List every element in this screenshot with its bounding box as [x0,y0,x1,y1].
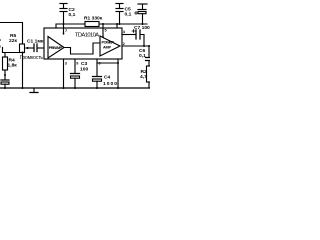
pin 9 [76,62,78,66]
ground rail [0,87,150,89]
pin 1 wire top [116,23,118,28]
svg-text:5: 5 [105,29,107,33]
pin 3 [65,62,67,66]
pin 2 output wire [122,45,150,47]
capacitor C7 100 [136,30,144,46]
capacitor C5 0.1 [116,4,123,26]
svg-text:22к: 22к [9,38,17,44]
pin 3 wire to ground [63,59,65,88]
svg-text:3: 3 [65,62,67,66]
wire input top-left [0,23,23,45]
label TDA1010A [75,32,99,38]
plus mark of C7 [132,30,135,33]
svg-text:1000: 1000 [103,81,117,87]
resistor R4 1.8k [3,53,8,80]
svg-text:С7 100: С7 100 [134,25,150,31]
wire pot bottom to ground rail [22,53,24,89]
label R2 4.7 [140,69,147,80]
label C2 0.1 [69,7,76,18]
potentiometer R5 22k (volume) [20,44,25,53]
svg-text:0,1: 0,1 [139,53,146,59]
pin 5 [102,29,107,38]
svg-text:С1 1мк: С1 1мк [27,39,44,45]
pin 1 leg to ground rail [117,59,119,88]
label R4 1.8k [8,58,18,69]
wiper arrow of R5 [25,47,34,49]
label PREAMP [49,46,63,50]
svg-text:1,8к: 1,8к [8,63,18,69]
capacitor C4 1000 electrolytic [93,77,102,89]
svg-text:2: 2 [123,42,125,46]
pin 6 wire [96,59,98,76]
pin 2 [123,42,125,46]
wire pin6 to pin1 leg [97,62,119,64]
svg-text:С3: С3 [81,61,88,67]
svg-text:AMP: AMP [103,45,111,49]
wire preamp output to power amp input [64,43,100,54]
node rail joints [4,87,119,89]
label R1 330k [84,15,103,21]
pin 5 wire [102,23,104,38]
svg-text:4,7: 4,7 [140,74,147,80]
op-amp IC box TDA1010A [44,28,122,59]
pin 4 [123,30,126,34]
pin 4 wire [122,34,136,36]
svg-text:0,1: 0,1 [125,11,132,17]
svg-text:7: 7 [65,29,67,33]
capacitor C1 [34,44,37,52]
svg-text:9: 9 [76,62,78,66]
svg-text:0,1: 0,1 [69,12,76,18]
label C7 100 [134,25,150,31]
svg-text:R1 330к: R1 330к [84,15,103,21]
capacitor C6 0.1 [146,45,151,66]
op-amp power amp triangle [100,36,120,56]
label C1 1mk [27,39,44,45]
label R5 22k [9,33,17,44]
label C3 100 [80,61,88,73]
label Громкость (volume) [20,55,43,61]
label C6 0.1 [139,48,146,59]
capacitor C3 100 electrolytic [71,74,80,89]
wire C1 to pin 8 [38,47,49,49]
wire supply/feedback line top [56,24,147,28]
op-amp preamp triangle [48,37,64,59]
node on R4 lead [4,74,6,76]
label C5 0.1 [125,7,132,18]
label C4 1000 [103,75,117,88]
left edge cut text marks [0,37,1,49]
svg-text:POWER: POWER [102,41,115,45]
pin 8 [45,44,47,48]
plus mark of electrolytic [135,12,138,15]
node pot bottom junction [22,52,24,54]
resistor R2 4.7 [147,66,152,88]
wire pot bottom to left edge [3,48,23,53]
pin 6 [99,62,101,66]
node C2 on supply line [63,23,65,25]
svg-text:PREAMP: PREAMP [49,46,63,50]
svg-text:С4: С4 [104,75,111,81]
svg-text:4: 4 [123,30,126,34]
capacitor electrolytic top right [138,4,147,25]
svg-text:Громкость: Громкость [20,55,43,61]
label POWER AMP [102,41,115,50]
svg-text:к: к [0,44,1,49]
pin 7 [63,29,68,34]
svg-text:100: 100 [80,67,88,73]
svg-text:TDA1010A: TDA1010A [75,32,99,38]
capacitor electrolytic below R4 [1,80,9,88]
ground symbol [30,88,38,93]
svg-text:з: з [0,37,1,42]
pin 9 wire to C3 [74,59,76,73]
capacitor C2 0.1 [60,4,67,35]
resistor R1 330k [85,22,99,27]
